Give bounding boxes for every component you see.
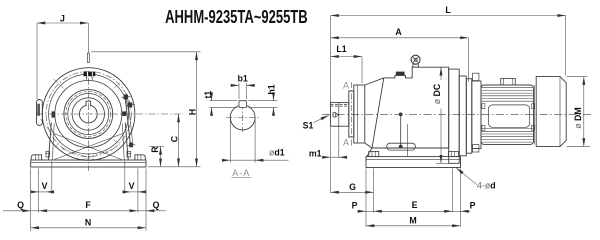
left clamp tab [37, 100, 43, 126]
svg-text:N: N [85, 218, 91, 228]
pedestal web diagonal left [54, 134, 121, 160]
svg-text:E: E [412, 200, 418, 210]
dim L line [331, 15, 566, 17]
bolt circle diagonal marks [54, 79, 122, 147]
dim A extension [468, 38, 470, 82]
SIDE VIEW DIMENSIONS [314, 16, 591, 227]
right base stud [127, 151, 131, 157]
fan cover [536, 77, 566, 147]
adapter ring 1 [459, 76, 466, 156]
svg-text:AHHM-9235TA~9255TB: AHHM-9235TA~9255TB [165, 6, 308, 27]
side foot lug right [449, 151, 459, 156]
pedestal dash diagonals [62, 149, 97, 161]
bell top slant [365, 78, 384, 85]
svg-text:J: J [60, 14, 65, 24]
pedestal right inner slant [122, 124, 124, 160]
oil gauge stem [399, 113, 402, 116]
dim V right line [125, 191, 131, 193]
dim A line [331, 37, 469, 39]
section line A [351, 82, 353, 146]
svg-text:ø DM: ø DM [573, 107, 583, 129]
svg-text:t1: t1 [203, 91, 213, 99]
dim C line [178, 114, 180, 167]
dim V left extensions [38, 169, 40, 213]
eyebolt collar front [84, 72, 96, 77]
svg-text:ø DC: ø DC [432, 83, 442, 104]
svg-text:b1: b1 [238, 74, 248, 84]
dim DC extensions [436, 162, 449, 164]
motor fins top [482, 88, 533, 102]
dim G line [331, 191, 374, 193]
svg-text:G: G [349, 182, 356, 192]
vent plug [396, 72, 404, 76]
dim H extension bottom [148, 166, 201, 168]
seal circle [68, 94, 109, 135]
eyebolt stem front [87, 23, 89, 53]
base plate front [31, 160, 146, 167]
dim R extension [150, 146, 165, 148]
shaft bore circle [79, 105, 97, 123]
section crosshair [226, 117, 260, 119]
side foot lug left [369, 151, 379, 156]
svg-text:A-A: A-A [232, 168, 250, 178]
dim PEP row line [358, 210, 367, 212]
right strut ticks [121, 96, 130, 97]
rim inner circle [49, 74, 129, 154]
shaft keyway notch [86, 101, 91, 106]
SIDE VIEW [322, 55, 591, 167]
dim DM line [583, 77, 585, 147]
flange [449, 69, 460, 163]
pedestal web diagonal right [55, 134, 123, 160]
dim V left line [31, 191, 39, 193]
foot gusset line [407, 124, 409, 157]
svg-text:L1: L1 [336, 44, 346, 54]
svg-text:h1: h1 [266, 84, 276, 94]
output shaft side [331, 103, 349, 127]
side base plate [366, 157, 461, 168]
dim H line [196, 52, 198, 167]
dim t1 line [211, 96, 213, 101]
dim H extension top [91, 51, 201, 53]
bearing housing [354, 85, 365, 143]
right side bolt [122, 112, 126, 116]
svg-text:R: R [150, 146, 160, 153]
svg-text:F: F [85, 200, 91, 210]
tab axis dash [41, 119, 52, 133]
dim M line [366, 225, 461, 227]
right strut tube [125, 99, 130, 143]
foot web left [367, 148, 372, 157]
leader 4-d [456, 168, 477, 185]
svg-text:m1: m1 [309, 149, 322, 159]
left foot lug [31, 155, 41, 160]
svg-text:P: P [352, 200, 358, 210]
front centerline vertical [87, 78, 89, 171]
hidden circle (dashed) [66, 92, 111, 137]
dim DM extensions [567, 76, 588, 78]
dim J extension left [36, 23, 38, 99]
dim L1 line [331, 56, 363, 58]
dim PEP extensions [365, 169, 367, 227]
dim QFQ extensions [30, 169, 32, 232]
pedestal left outer slant [48, 123, 51, 160]
right strut second fitting [128, 103, 132, 108]
section shaft circle [230, 105, 255, 130]
oil drain pad [387, 143, 416, 150]
side centerline [322, 113, 591, 115]
motor top lug [501, 78, 516, 85]
front centerline horizontal [36, 113, 183, 115]
svg-text:S1: S1 [303, 120, 314, 130]
dim J line [37, 22, 88, 24]
motor tie bolt bottom [473, 145, 479, 152]
motor tie bolt top [473, 73, 479, 80]
dim V right extensions [124, 161, 126, 194]
dim d1 line [222, 159, 230, 161]
svg-text:Q: Q [17, 200, 24, 210]
dim G extension [373, 169, 375, 213]
right strut upper fitting [124, 95, 128, 100]
adapter ring 2 [466, 79, 472, 154]
bolt circle (dash-dot) [46, 71, 131, 156]
right strut lower bolt [129, 143, 133, 147]
dim QFQ row line [3, 210, 23, 212]
svg-text:A: A [343, 137, 349, 147]
motor body [481, 85, 534, 144]
leader S1 [314, 115, 329, 122]
dim N line [31, 227, 146, 229]
dim d1 extensions [229, 120, 231, 163]
pedestal right outer slant [125, 123, 128, 160]
svg-text:H: H [187, 109, 197, 115]
svg-text:4-ød: 4-ød [477, 181, 496, 191]
left base stud [46, 151, 50, 157]
hub circle [72, 98, 104, 130]
dim t1 extensions [210, 100, 238, 102]
dim b1 line [231, 84, 239, 86]
right foot lug [135, 155, 145, 160]
svg-text:P: P [470, 200, 476, 210]
eyebolt side base [412, 64, 418, 67]
motor frame band [488, 105, 529, 127]
svg-text:V: V [42, 181, 48, 191]
shaft center hole [333, 113, 336, 117]
svg-text:Q: Q [153, 200, 160, 210]
section keyway [239, 101, 246, 107]
dim h1 line [273, 95, 275, 101]
gear case outline [372, 67, 449, 148]
FRONT VIEW DIMENSIONS [3, 23, 201, 231]
eyebolt boss front [86, 76, 92, 79]
outer housing circle [42, 68, 135, 161]
svg-text:C: C [169, 135, 179, 142]
hub face plate [349, 91, 354, 137]
dim h1 extensions [248, 100, 277, 102]
bell bottom slant [365, 143, 372, 148]
motor side clips [482, 104, 485, 109]
dim L extensions [330, 16, 332, 103]
svg-text:M: M [409, 216, 416, 226]
svg-text:ød1: ød1 [269, 148, 285, 158]
svg-text:A: A [395, 27, 402, 37]
eyebolt side ring [411, 55, 420, 64]
dim b1 extensions [238, 83, 240, 99]
dim R line [160, 147, 162, 167]
boss circle [64, 90, 113, 139]
SECTION A-A VIEW [226, 101, 260, 132]
cover circle [55, 81, 122, 148]
svg-text:L: L [445, 5, 451, 15]
motor fins bottom [482, 129, 533, 143]
dim m1 extensions [330, 127, 332, 193]
shaft keyway hidden lines [331, 103, 349, 105]
pedestal left inner slant [52, 124, 54, 160]
dim DC line [440, 67, 442, 80]
svg-text:V: V [129, 181, 135, 191]
svg-text:A: A [343, 81, 349, 91]
dim m1 line [323, 156, 331, 158]
motor front band [472, 81, 481, 149]
left side bolt [52, 112, 55, 118]
dim L1 extension [361, 57, 363, 84]
